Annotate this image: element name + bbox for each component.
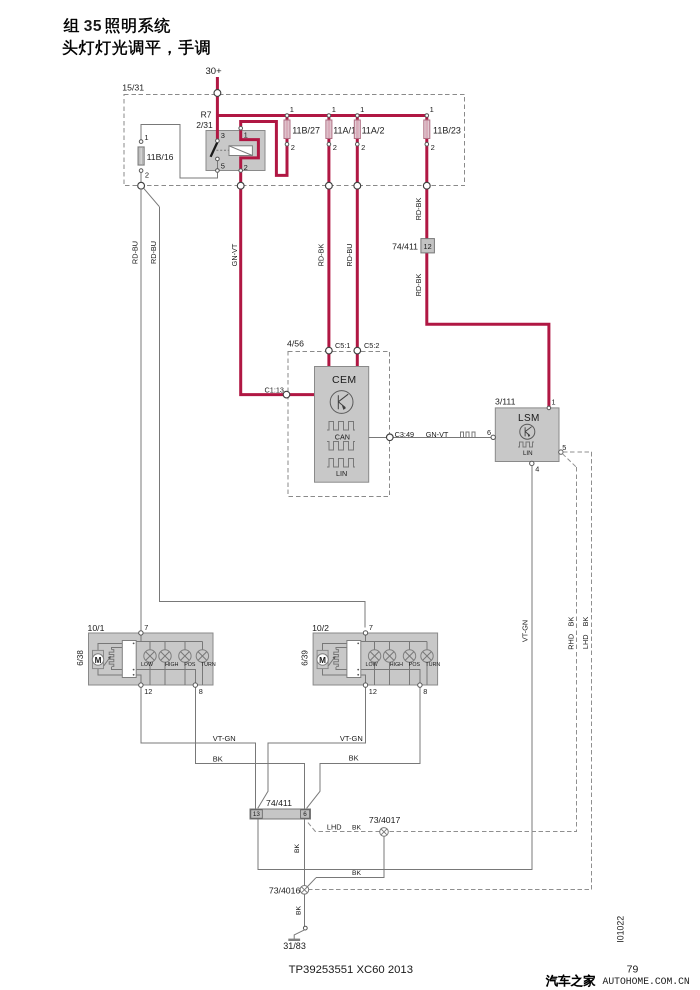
svg-text:VT-GN: VT-GN [213,734,236,743]
svg-text:2: 2 [244,163,248,172]
svg-text:C5:2: C5:2 [364,341,379,350]
10/1 pin 8 [193,683,203,696]
wire fuse 11B/27 feed [286,116,289,143]
motor M 6/39 [317,650,328,668]
svg-text:11B/23: 11B/23 [433,126,461,136]
potentiometer 10/2 [328,650,338,667]
node 30+ entry [214,90,221,97]
LSM pin 1 [547,406,551,410]
title line 2 [63,40,78,55]
svg-text:RD-BK: RD-BK [317,244,326,267]
potentiometer 10/1 [104,650,114,667]
svg-text:GN-VT: GN-VT [230,243,239,266]
wire BK from 73/4017 down to 73/4016 [308,836,384,886]
svg-text:1: 1 [360,105,364,114]
LSM pin 5 [559,443,567,454]
svg-text:POS: POS [409,662,421,668]
LSM pin 6 [487,428,495,440]
wire BK 10/1 pinS to 74/411 pin6 [195,687,304,808]
wire LSM pin4 VT-GN down to connector 74/411 pin13 [258,466,532,870]
ECU CEM box [315,367,369,483]
svg-text:35: 35 [84,18,102,35]
node C5:1 [326,341,351,354]
node B x240 [237,182,244,189]
node D x357 [354,182,361,189]
wire BK 74/411 pin6 down [294,819,305,886]
lamp POS 10/1 [179,650,196,668]
headlight unit 10/1 box [76,623,213,685]
wire relay pin1 to fuse 11B/27 pin2 [241,122,287,176]
box 4/56 dashed border [287,339,390,497]
svg-text:10/1: 10/1 [88,623,105,633]
svg-text:I01022: I01022 [615,916,625,943]
lamp HIGH 10/2 [383,650,403,668]
svg-text:11A/2: 11A/2 [362,126,385,136]
svg-text:8: 8 [199,687,203,696]
node C1:13 [265,386,290,398]
node C x329 [326,182,333,189]
svg-text:3/111: 3/111 [495,397,516,407]
watermark [546,975,690,987]
svg-text:73/4016: 73/4016 [269,886,301,896]
10/1 pin 7 [139,623,149,635]
headlight unit 10/2 box [300,623,437,685]
svg-text:31/83: 31/83 [283,941,306,951]
wire CEM C3:49 to LSM pin6 [369,436,491,438]
relay switch blade [211,143,218,157]
LSM transistor icon [520,424,535,439]
svg-text:1: 1 [430,105,434,114]
svg-text:RHD: RHD [566,634,575,650]
wire red supply bus [217,114,426,117]
svg-text:BK: BK [581,617,590,627]
svg-text:2: 2 [333,143,337,152]
node A x141 [138,182,145,189]
svg-text:LHD: LHD [581,634,590,649]
node C5:2 [354,341,379,354]
wire RD-BU left to 10/1 pin7 [140,189,142,630]
svg-text:11B/16: 11B/16 [147,152,174,162]
svg-text:M: M [319,656,326,665]
controller block 10/2 [347,641,361,678]
svg-text:2: 2 [361,143,365,152]
lamp TURN 10/2 [421,650,441,668]
wire dashed LHD from LSM pin5 via 73/4017 [562,454,576,468]
10/2 pin 7 [363,623,373,635]
wire fuse 11B/23 pin2 down RD-BK to LSM pin1 [427,116,549,408]
lamp HIGH 10/1 [159,650,179,668]
lamp LOW 10/2 [366,650,381,668]
wire 30+ feed [216,77,219,139]
svg-text:2: 2 [145,171,149,180]
svg-text:5: 5 [221,162,225,171]
label LHD BK [327,823,362,832]
wire VT-GN 10/1 pin12 to 74/411 pin13 [141,687,256,808]
svg-text:30+: 30+ [206,66,223,77]
relay R7 2/31 box [196,110,265,171]
10/2 pin 8 [418,683,428,696]
CEM wave 3 [327,459,355,467]
svg-text:LIN: LIN [523,450,533,457]
svg-text:R7: R7 [201,110,212,120]
wire fuse 11A/2 pin2 down RD-BU [356,116,359,367]
wire fuse 11A/1 pin2 down RD-BK [327,116,330,367]
svg-text:4/56: 4/56 [287,339,304,349]
svg-text:1: 1 [244,131,248,140]
node C3:49 [387,430,415,440]
svg-text:RD-BU: RD-BU [149,241,158,264]
ECU LSM box [495,397,559,462]
svg-text:LOW: LOW [141,662,153,668]
svg-text:8: 8 [423,687,427,696]
svg-text:5: 5 [562,443,566,452]
svg-text:BK: BK [296,906,303,916]
svg-text:6: 6 [487,428,491,437]
svg-text:7: 7 [144,623,148,632]
relay pin 3 [216,131,225,143]
fuse 11B/27 [284,105,320,152]
svg-text:13: 13 [253,811,261,818]
svg-text:7: 7 [369,623,373,632]
svg-text:11A/1: 11A/1 [333,126,356,136]
svg-text:VT-GN: VT-GN [520,620,529,642]
controller block 10/1 [122,641,136,678]
svg-text:RD-BK: RD-BK [414,198,423,221]
grommet 73/4016 [269,886,309,896]
wire VT-GN 10/2 pin12 to 74/411 pin13 [268,687,366,791]
svg-text:C1:13: C1:13 [265,386,284,395]
wave glyph on LIN wire [459,432,476,438]
svg-text:74/411: 74/411 [392,242,418,252]
svg-text:73/4017: 73/4017 [369,815,401,825]
svg-text:15/31: 15/31 [122,83,144,93]
svg-text:6/38: 6/38 [76,650,85,666]
svg-text:C5:1: C5:1 [335,341,350,350]
svg-text:BK: BK [349,754,359,763]
svg-text:6/39: 6/39 [300,650,309,666]
svg-text:HIGH: HIGH [390,662,403,668]
lamp POS 10/2 [403,650,420,668]
relay pin 5 [216,157,225,172]
ground 31/83 [283,930,306,951]
svg-text:2/31: 2/31 [196,120,213,130]
svg-text:BK: BK [566,617,575,627]
svg-text:1: 1 [332,105,336,114]
connector 74/411 pin 12 [392,239,434,253]
lamp LOW 10/1 [141,650,156,668]
wire relay pin5 to fuse 11B/16 [141,124,217,178]
svg-text:2: 2 [291,143,295,152]
svg-text:RD-BK: RD-BK [414,274,423,297]
svg-text:LSM: LSM [518,413,540,424]
10/2 internal wires [323,635,427,685]
svg-text:11B/27: 11B/27 [292,126,320,136]
title line 1 [64,18,79,32]
box 15/31 dashed border [122,83,464,186]
svg-text:AUTOHOME.COM.CN: AUTOHOME.COM.CN [603,976,690,987]
svg-text:BK: BK [213,755,223,764]
svg-text:74/411: 74/411 [266,798,292,808]
wire RD-BU right to 10/2 pin7 [144,188,160,207]
fuse 11B/16 [138,133,174,179]
relay coil loop wire [241,130,259,169]
svg-text:12: 12 [424,242,432,251]
svg-text:LHD: LHD [327,823,342,832]
wire BK 10/2 pinS to 74/411 pin6 [320,687,420,791]
wire BK to ground [296,894,308,930]
svg-text:C3:49: C3:49 [395,430,414,439]
svg-text:BK: BK [294,844,301,854]
svg-text:TP39253551 XC60 2013: TP39253551 XC60 2013 [289,964,413,976]
relay pin 1 [239,126,248,139]
10/1 internal wires [98,635,202,685]
connector 74/411 lower [250,798,311,819]
svg-text:M: M [95,656,102,665]
svg-text:1: 1 [552,398,556,407]
CEM transistor icon [330,391,353,414]
wire fuse 11B/16 pin2 to node [140,172,142,185]
svg-text:1: 1 [290,105,294,114]
svg-text:12: 12 [369,687,377,696]
svg-text:TURN: TURN [426,662,441,668]
grommet 73/4017 [369,815,401,836]
svg-text:POS: POS [184,662,196,668]
svg-text:TURN: TURN [201,662,216,668]
svg-text:4: 4 [535,465,539,474]
CEM wave 2 [327,442,355,450]
svg-text:CEM: CEM [332,374,357,386]
svg-text:3: 3 [221,131,225,140]
svg-text:12: 12 [144,687,152,696]
svg-text:LIN: LIN [336,469,347,478]
lamp TURN 10/1 [196,650,216,668]
LSM wave [518,442,534,447]
fuse 11A/2 [354,105,384,152]
fuse 11A/1 [326,105,356,152]
CEM wave 1 [327,422,355,430]
svg-text:GN-VT: GN-VT [426,430,449,439]
svg-text:BK: BK [352,825,362,832]
relay coil [229,146,252,156]
relay switch link dashed [216,149,229,151]
svg-text:1: 1 [144,133,148,142]
svg-text:RD-BU: RD-BU [131,241,140,264]
wire relay pin2 GN-VT down to CEM C1:13 [241,172,315,394]
svg-text:HIGH: HIGH [165,662,178,668]
node E x427 [423,182,430,189]
svg-text:2: 2 [431,143,435,152]
10/1 pin 12 [139,683,153,696]
svg-text:10/2: 10/2 [312,623,329,633]
motor M 6/38 [92,650,103,668]
svg-text:LOW: LOW [366,662,378,668]
LSM pin 4 [530,461,540,473]
relay pin 2 [239,163,248,173]
10/2 pin 12 [363,683,377,696]
svg-text:VT-GN: VT-GN [340,734,363,743]
svg-text:RD-BU: RD-BU [345,243,354,266]
svg-text:BK: BK [352,870,362,877]
svg-text:6: 6 [303,811,307,818]
svg-text:79: 79 [627,963,639,975]
fuse 11B/23 [424,105,461,152]
svg-text:CAN: CAN [335,433,350,442]
wire dashed RHD from LSM pin5 via 73/4016 [309,452,592,889]
